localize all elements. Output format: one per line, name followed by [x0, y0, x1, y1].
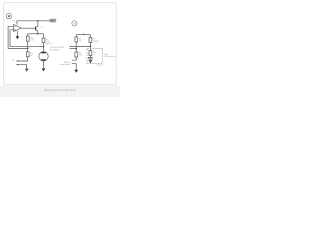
- node arrow stub: [83, 33, 84, 35]
- ground dashed box: [89, 60, 93, 62]
- wire top rail: [17, 20, 50, 22]
- junction dot feedback node: [27, 48, 29, 50]
- capacitor C3 plates: [88, 57, 93, 58]
- dashed option box: [87, 48, 103, 63]
- wire base from op-amp output: [21, 27, 35, 29]
- wire op-amp ground pin: [16, 31, 18, 36]
- wire R2 chain: [27, 34, 29, 49]
- wire op-amp plus input: [10, 30, 14, 47]
- wire Q1 emitter drop: [36, 30, 38, 34]
- svg-text:slide switch: slide switch: [60, 63, 70, 66]
- ground op-amp: [16, 37, 19, 39]
- svg-text:9V 100mA: 9V 100mA: [50, 48, 60, 51]
- wire bottom bus: [10, 46, 44, 48]
- svg-text:4.7k: 4.7k: [30, 40, 34, 42]
- wire resistor bridge: [76, 34, 90, 36]
- battery terminals: [17, 61, 19, 62]
- page background: [0, 0, 120, 97]
- switch SW1: [72, 60, 76, 70]
- wire battery bottom lead: [17, 65, 27, 69]
- wire emitter row: [28, 33, 44, 35]
- svg-text:HLB-admin sy: HLB-admin sy: [104, 56, 115, 58]
- junction dot motor node: [43, 46, 45, 48]
- wire right bus: [69, 46, 90, 48]
- supply chip: [49, 19, 56, 23]
- motor M1: [39, 52, 48, 61]
- schematic card: [4, 3, 117, 85]
- svg-text:1k: 1k: [30, 55, 32, 57]
- marker circle: [72, 21, 77, 26]
- svg-text:Q1: Q1: [41, 27, 43, 29]
- svg-text:1.2kW: 1.2kW: [93, 41, 99, 43]
- wire op-amp V+ pin: [16, 21, 18, 25]
- resistor R3: [42, 38, 45, 43]
- svg-text:10k: 10k: [79, 55, 82, 57]
- resistor R6: [89, 51, 92, 56]
- svg-text:1k: 1k: [93, 54, 95, 56]
- svg-text:1k: 1k: [79, 41, 81, 43]
- junction dot collector: [37, 20, 39, 22]
- wire R6 to cap: [89, 56, 91, 58]
- resistor R4: [75, 37, 78, 42]
- svg-text:9V: 9V: [51, 20, 54, 23]
- capacitor C1 bottom plate: [69, 48, 76, 50]
- ground switch: [75, 70, 78, 72]
- svg-text:M1 9V: M1 9V: [46, 43, 52, 45]
- op-amp U1: [14, 24, 22, 31]
- resistor R7: [89, 38, 92, 43]
- resistor R1: [26, 52, 29, 57]
- wire R3 chain: [42, 34, 44, 47]
- wire motor top lead: [43, 47, 45, 52]
- wire R5 chain: [75, 49, 77, 61]
- wire Q1 collector riser: [36, 21, 38, 28]
- ground battery: [25, 69, 28, 71]
- transistor Q1: [35, 27, 37, 31]
- wire op-amp minus input: [8, 26, 28, 48]
- wire R4 chain: [75, 35, 77, 49]
- resistor R5: [75, 52, 78, 57]
- junction dot emitter: [37, 33, 39, 35]
- wire C3 to ground: [89, 59, 91, 60]
- source V1: [6, 13, 11, 18]
- caption band: [0, 85, 120, 97]
- ground motor: [42, 69, 45, 71]
- junction dot cap node: [75, 48, 77, 50]
- junction dot R7 node: [90, 45, 92, 47]
- wire R1 chain: [17, 48, 28, 61]
- svg-text:Motor Speed Controller Circuit: Motor Speed Controller Circuit: [44, 88, 76, 92]
- svg-text:Optional: Optional: [96, 64, 103, 67]
- wire motor bottom lead: [43, 61, 45, 68]
- wire R7 chain: [89, 35, 91, 51]
- resistor R2: [26, 36, 29, 41]
